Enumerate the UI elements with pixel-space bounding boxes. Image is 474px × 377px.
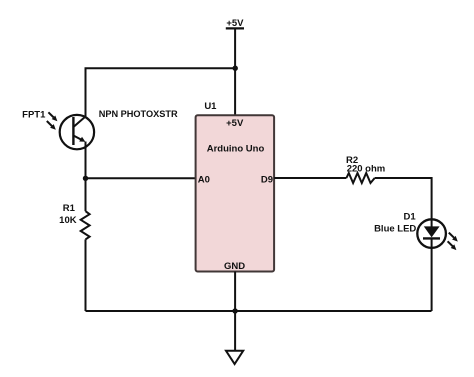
wire: +5V bar down to U1 +5V pin xyxy=(234,28,236,115)
transistor FPT1 (NPN phototransistor) body circle xyxy=(60,115,94,149)
power +5V bar xyxy=(226,27,244,29)
LED D1 triangle xyxy=(424,226,440,237)
node: A0 junction xyxy=(83,176,88,181)
node: +5V junction xyxy=(233,66,238,71)
transistor FPT1 base bar xyxy=(72,117,74,145)
wire: ground rail xyxy=(86,310,432,312)
svg-text:D1: D1 xyxy=(404,211,417,222)
resistor R2 zigzag xyxy=(346,173,374,183)
IC U1 Arduino Uno box xyxy=(196,115,275,271)
wire: U1 GND pin down to ground rail xyxy=(234,272,236,312)
wire: R1 down to ground rail xyxy=(85,239,87,311)
light arrow 2 out of LED xyxy=(448,241,453,246)
LED D1 cathode bar xyxy=(423,237,440,239)
wire: FPT1 emitter down to A0 node xyxy=(85,142,87,179)
light arrow 2 into FPT1 xyxy=(47,121,52,126)
svg-text:Arduino Uno: Arduino Uno xyxy=(207,143,265,154)
wire: +5V junction left and down to phototransistor collector xyxy=(86,68,236,117)
wire: U1 D9 pin to R2 xyxy=(274,177,346,179)
svg-text:FPT1: FPT1 xyxy=(22,110,46,121)
svg-text:220 ohm: 220 ohm xyxy=(347,164,386,175)
svg-text:+5V: +5V xyxy=(226,18,244,29)
svg-text:U1: U1 xyxy=(204,101,217,112)
LED D1 cathode wire xyxy=(431,238,433,311)
svg-text:R1: R1 xyxy=(63,203,76,214)
resistor R1 zigzag xyxy=(81,211,90,239)
wire: ground junction to ground symbol xyxy=(234,311,236,351)
light arrow 1 out of LED xyxy=(449,233,454,238)
transistor FPT1 collector lead xyxy=(73,117,85,128)
transistor FPT1 emitter lead with arrow xyxy=(73,136,81,140)
LED D1 body circle xyxy=(417,219,446,248)
wire: A0 node down to R1 xyxy=(85,178,87,211)
svg-text:A0: A0 xyxy=(198,174,210,185)
wire: R2 to LED corner and down xyxy=(375,178,432,220)
ground symbol xyxy=(226,351,243,364)
svg-text:+5V: +5V xyxy=(226,118,244,129)
wire: A0 node to U1 A0 pin xyxy=(86,177,196,179)
svg-text:D9: D9 xyxy=(261,174,273,185)
svg-text:10K: 10K xyxy=(59,215,77,226)
light arrow 1 into FPT1 xyxy=(48,112,53,117)
svg-text:GND: GND xyxy=(224,261,245,272)
node: ground junction xyxy=(232,308,237,313)
svg-text:NPN PHOTOXSTR: NPN PHOTOXSTR xyxy=(99,109,178,119)
svg-text:Blue LED: Blue LED xyxy=(374,223,416,234)
LED D1 anode wire into circle xyxy=(431,220,433,227)
